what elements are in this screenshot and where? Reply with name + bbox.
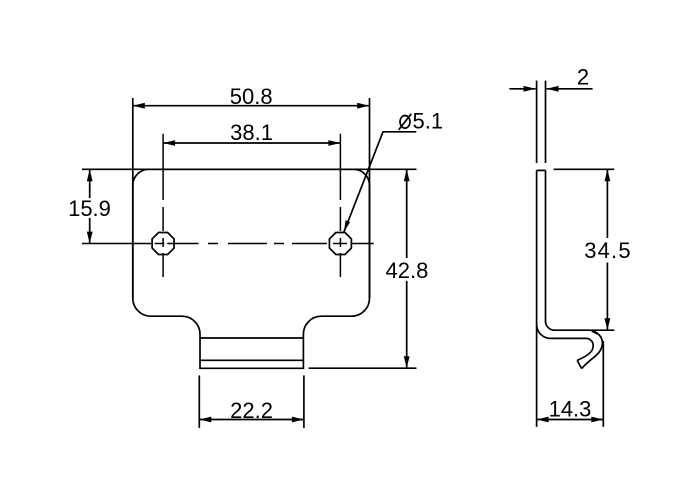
svg-text:5.1: 5.1 <box>413 108 444 133</box>
vertical centerline right hole / extension 38.1 <box>339 134 341 277</box>
42.8 arrows <box>404 169 410 181</box>
extension lines for 2 (above side view) <box>536 81 538 163</box>
extension line 50.8 left / plate left edge <box>132 98 134 298</box>
2 dim arrows (outside, pointing inward) <box>524 86 536 92</box>
svg-text:14.3: 14.3 <box>549 397 592 422</box>
dimension line 38.1 <box>163 142 340 144</box>
top surface line A + 34.5 bottom extension <box>554 329 615 331</box>
extension lines 22.2 <box>198 375 200 428</box>
top edge / extension line row (15.9 ext + plate top + 42.8 ext) <box>82 168 417 170</box>
hole left (Ø5.1) <box>152 233 174 255</box>
svg-text:2: 2 <box>577 65 589 90</box>
dimension texts <box>68 65 632 424</box>
dimension line 15.9 (broken for text) <box>89 169 91 198</box>
svg-text:15.9: 15.9 <box>68 196 111 221</box>
svg-text:34.5: 34.5 <box>584 238 632 263</box>
leader arrow for Ø5.1 <box>344 220 350 232</box>
inner right edge <box>545 170 547 322</box>
curl tip cut <box>577 360 581 368</box>
bottom surface line B <box>551 337 588 339</box>
dimension line 42.8 (broken for text) <box>406 169 408 258</box>
dimension line 22.2 <box>199 419 304 421</box>
22.2 arrows <box>199 417 211 423</box>
dimension line 34.5 (broken for text) <box>606 169 608 238</box>
svg-text:42.8: 42.8 <box>385 258 428 283</box>
extension line 50.8 right / plate right edge <box>369 98 371 298</box>
arrowheads <box>87 86 611 423</box>
extension line 42.8 bottom <box>309 367 417 369</box>
top cap <box>537 169 546 171</box>
38.1 arrows <box>163 140 175 146</box>
inner bend arc <box>546 321 555 330</box>
curl outer surface <box>582 330 603 368</box>
tab fold line upper <box>200 337 303 339</box>
curl junction thick spot <box>592 331 598 334</box>
phi symbol of Ø5.1 <box>399 114 412 130</box>
dimension line 50.8 <box>133 105 369 107</box>
hole right (Ø5.1) <box>329 233 351 255</box>
outer bend arc <box>537 324 551 338</box>
leader line Ø5.1 <box>344 132 417 233</box>
outer left edge + 14.3 extension left <box>536 170 538 427</box>
curl inner surface <box>577 338 593 360</box>
extension line 14.3 right <box>602 341 604 427</box>
front view plate outline <box>133 169 370 368</box>
tab fold line lower <box>200 359 303 361</box>
dimension 2 left line <box>509 88 535 90</box>
svg-text:38.1: 38.1 <box>230 120 273 145</box>
34.5 arrows <box>605 169 611 181</box>
dimension 2 right line <box>547 88 593 90</box>
extension line 34.5 top <box>554 168 615 170</box>
15.9 arrows <box>87 169 93 181</box>
14.3 arrows <box>537 417 549 423</box>
50.8 arrows <box>133 103 145 109</box>
horizontal centerline through holes <box>82 243 374 245</box>
svg-text:50.8: 50.8 <box>230 84 273 109</box>
svg-text:22.2: 22.2 <box>230 398 273 423</box>
dimension line 14.3 <box>537 419 604 421</box>
vertical centerline left hole / extension 38.1 <box>162 134 164 277</box>
